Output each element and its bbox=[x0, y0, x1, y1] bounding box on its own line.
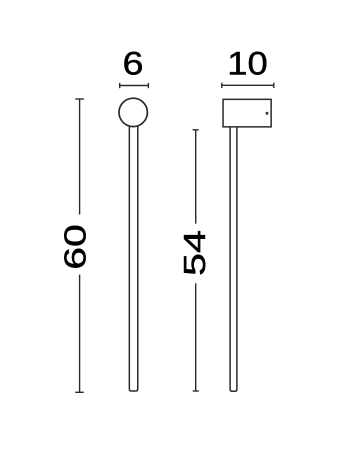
lamp rod front view bbox=[129, 120, 137, 391]
mounting box side view bbox=[223, 99, 271, 127]
dimension line width 10 bbox=[222, 83, 274, 88]
svg-text:60: 60 bbox=[57, 224, 92, 270]
dimension line height 60 bbox=[75, 99, 84, 392]
lamp sphere front view bbox=[119, 98, 147, 126]
lamp rod side view bbox=[230, 126, 237, 391]
svg-text:54: 54 bbox=[177, 230, 212, 276]
svg-text:6: 6 bbox=[123, 46, 144, 82]
dimension line height 54 bbox=[193, 130, 199, 391]
dimension line width 6 bbox=[120, 83, 149, 88]
svg-text:10: 10 bbox=[227, 45, 268, 81]
screw dot bbox=[266, 112, 269, 115]
